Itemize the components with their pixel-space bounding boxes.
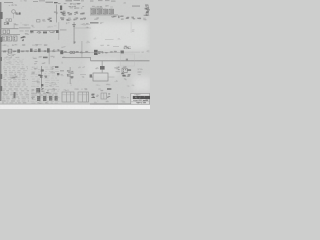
table T6 outline — [78, 92, 89, 102]
label text right col a — [137, 68, 140, 71]
label y62 a — [34, 63, 36, 64]
node cross — [101, 21, 103, 24]
label under K4 a — [97, 84, 100, 87]
label under T2 — [96, 17, 99, 18]
resistor R5 box — [8, 49, 12, 53]
faint wire x131 — [130, 22, 133, 33]
label dash y46 — [113, 45, 119, 48]
terminal dark x30 — [30, 49, 33, 53]
white margin bottom — [0, 105, 150, 110]
relay K1 contact boxes — [6, 19, 8, 22]
wire dash K — [111, 1, 116, 2]
small table x103 — [101, 93, 107, 99]
label row y57 — [11, 56, 13, 57]
contact box row1 a — [3, 30, 6, 33]
label mid — [25, 33, 27, 36]
terminal dash x56 y67 — [55, 66, 58, 68]
label x62 y75 — [61, 74, 64, 77]
label x97 y95 — [96, 95, 99, 96]
label x125 y79 — [124, 77, 126, 80]
capacitor C6 — [139, 18, 141, 19]
motor M2 dark — [60, 50, 63, 54]
label under K4 b — [108, 84, 110, 85]
label text right col b — [138, 71, 141, 74]
wire step join x90 — [89, 57, 92, 61]
component x76 — [76, 51, 79, 52]
label text left of C2 — [42, 20, 44, 21]
switch S1 box — [37, 20, 40, 22]
component cluster x88 y43 — [87, 41, 89, 42]
label text right col c — [139, 73, 141, 76]
transistor Q1 — [68, 71, 70, 74]
dash y72 x118 — [116, 70, 121, 73]
notes text faint upper — [3, 58, 5, 61]
wire y29.8 stub — [60, 29, 67, 32]
component cluster right edge — [146, 13, 147, 16]
label x125 y67 — [125, 65, 127, 68]
component x106 — [106, 52, 108, 53]
wire dash x62 y71 — [60, 69, 64, 72]
wire dash J — [105, 0, 110, 2]
label x88 y27 — [87, 27, 89, 28]
label y84 right — [53, 84, 55, 85]
component x43 y90 — [42, 87, 43, 90]
component y50 b — [13, 51, 14, 52]
component x44 — [44, 49, 46, 52]
light area mid — [86, 58, 118, 78]
dark streak x14 — [14, 92, 16, 98]
dark dash y89 x109 — [107, 88, 111, 90]
stub wires above transformers — [92, 8, 95, 9]
title block divider — [131, 101, 150, 103]
component cluster y12 d — [80, 13, 83, 16]
component right y76 — [45, 75, 47, 78]
terminal dark x48 — [47, 48, 50, 52]
label y57 mid c — [52, 55, 55, 58]
label above table2 b — [85, 88, 87, 91]
component cluster C2 area — [49, 17, 52, 20]
wire vertical drop x102 — [101, 61, 104, 73]
transistor Q2 — [71, 73, 73, 74]
wire top-left horizontal — [4, 1, 13, 4]
left border blob 4 — [0, 74, 2, 79]
label y57 right — [16, 57, 18, 58]
marks x108 y95 — [108, 96, 110, 97]
scribble x44-59 mid — [45, 66, 48, 69]
wire dash C — [46, 2, 54, 3]
component row y18 b — [67, 20, 70, 21]
component dark x123 y75 — [121, 72, 124, 75]
label y62 b — [44, 62, 45, 63]
notes darker cluster — [15, 74, 16, 77]
component x81 — [80, 52, 82, 53]
component x115 — [114, 51, 117, 52]
relay K2 coil pair — [7, 22, 9, 24]
component cluster y47 — [128, 46, 131, 49]
wire dash F — [74, 0, 81, 2]
diode D2 — [127, 17, 129, 18]
components right of array — [23, 36, 26, 37]
label y103 — [39, 103, 41, 104]
bus wire vertical x41 — [40, 66, 43, 88]
component x65 — [65, 52, 67, 53]
left border blob 2 — [0, 37, 2, 42]
bar row B3 — [49, 96, 52, 101]
label x82 y67 faint — [78, 67, 81, 68]
light area right-center — [90, 22, 148, 50]
label x52 y72 — [52, 71, 54, 72]
label left of title block — [124, 97, 126, 98]
component x48 y91 — [46, 92, 49, 93]
label text top edge — [24, 0, 26, 1]
ic U2 box with pins — [122, 68, 127, 72]
component x102 — [101, 52, 103, 53]
light area right mid — [133, 77, 150, 91]
faint mark right — [118, 37, 120, 40]
bus wire y28.6 — [0, 27, 19, 30]
capacitor C5 — [133, 18, 135, 19]
label left of title block b — [121, 100, 124, 101]
faint marks y85 — [128, 86, 129, 87]
component row y6 — [72, 6, 74, 7]
capacitor C7 on bus — [72, 23, 75, 26]
marks left of bars — [32, 96, 35, 99]
wire dash L — [132, 5, 140, 8]
component small right — [113, 15, 114, 18]
bottom border line right dark — [90, 103, 150, 106]
notes text block lower — [3, 88, 6, 89]
bus wire vertical x58.8 — [58, 22, 61, 40]
connector J1 right edge — [145, 7, 147, 10]
component x128 y76 — [128, 74, 131, 75]
left border blob 3 — [0, 57, 2, 61]
diode D1 — [121, 18, 122, 21]
faint y101 b — [107, 101, 109, 102]
big box outline faint — [121, 54, 135, 66]
transformer T2 winding — [97, 9, 101, 14]
transformer T1 winding — [91, 9, 95, 14]
junction dark node — [19, 12, 21, 14]
label sparse a — [31, 25, 33, 26]
title block text row1 — [136, 99, 139, 102]
bar row B1 — [37, 96, 40, 101]
bus wire y8 — [90, 7, 103, 10]
wire vertical x82 — [81, 41, 84, 58]
terminal dash y57 — [43, 57, 48, 59]
component row y18 — [61, 17, 64, 18]
component x38 — [37, 32, 38, 33]
scribble x30-40 mid — [32, 66, 35, 69]
label row y44 c — [39, 43, 42, 46]
label x82 y77 — [83, 77, 85, 78]
component dense y76 — [39, 75, 42, 76]
wire y27.9 branch right — [74, 27, 91, 30]
text row y93 — [31, 93, 34, 94]
paper background — [0, 0, 150, 109]
component cluster dense y12 — [62, 13, 65, 14]
stub wire right — [118, 16, 120, 19]
component x111 — [110, 51, 112, 52]
label y89 x100 — [101, 90, 103, 91]
component x141 faint — [143, 50, 145, 53]
component on bus y70 — [41, 70, 43, 71]
label row y44 a — [14, 44, 17, 47]
component x53 — [52, 50, 53, 51]
label x53 y67 — [52, 68, 54, 69]
label above table1 — [67, 89, 69, 92]
bottom border line — [0, 103, 150, 106]
faint mark diag — [93, 38, 94, 41]
label y84 faint — [70, 83, 72, 84]
dark node y85 — [41, 84, 43, 86]
bar row B4 — [55, 96, 58, 101]
label on bus — [56, 13, 57, 14]
resistor R1 dark bar — [60, 6, 62, 11]
component row y18 d — [81, 17, 84, 20]
stub wires below transformers — [92, 14, 95, 15]
label right of K4 — [116, 80, 117, 81]
label x33 y68 — [35, 68, 38, 69]
junction cluster x31 — [31, 30, 34, 33]
left border blob 1 — [0, 12, 3, 19]
dashed wire y31 — [20, 30, 24, 33]
scribble fill x30-60 lower — [31, 96, 35, 99]
wire vertical x117.5 — [116, 94, 119, 104]
wire dash x83 y75 — [80, 73, 86, 76]
faint marks x133 — [132, 31, 134, 32]
component x99 — [99, 53, 101, 54]
wire dash B — [39, 0, 45, 2]
terminal dark y50 — [17, 49, 20, 52]
junction mark low — [74, 42, 76, 43]
component x147 faint — [148, 51, 150, 54]
wire dash E — [66, 0, 73, 2]
node cluster near M1 — [16, 14, 18, 15]
label y46 mid — [62, 46, 65, 49]
component y50 a — [3, 50, 6, 53]
faint dash y40 — [105, 38, 114, 41]
bus wire y52.3 right — [90, 51, 120, 54]
bus wire y60.7 long — [91, 59, 150, 62]
terminal dark x39 — [38, 49, 41, 53]
component x35 — [34, 51, 36, 52]
wire to right edge — [82, 23, 90, 26]
wire dark dash y23 — [90, 22, 99, 23]
bus wire y30.3 — [30, 29, 59, 32]
bus wire vertical x70 — [69, 67, 72, 84]
wire dash I — [98, 0, 103, 2]
label y82 a — [34, 80, 36, 83]
label text top-left — [14, 4, 16, 5]
bus wire vertical x74 — [73, 22, 76, 44]
label right of bus — [83, 24, 86, 27]
label y57 mid a — [34, 58, 37, 59]
terminal dark x122 — [121, 51, 124, 54]
title block text row2 — [144, 101, 146, 104]
component x86 — [85, 51, 87, 52]
table T5 outline — [62, 92, 74, 102]
label row y44 d — [46, 44, 48, 47]
wire dash D — [58, 2, 61, 5]
mark y62 — [61, 61, 63, 64]
label text x20 y23 — [26, 24, 29, 25]
terminal dash x129 y70 — [128, 69, 132, 71]
bus wire y51 mid — [30, 50, 60, 53]
terminal dark x44 — [43, 32, 47, 34]
white margin bottom right — [118, 105, 150, 109]
label y57 small — [64, 56, 67, 59]
tick on bus x126 — [126, 59, 128, 61]
title block outline — [131, 93, 150, 104]
bus wire y51 — [0, 50, 30, 53]
wire K2 down — [13, 25, 16, 29]
component x50 — [52, 31, 54, 32]
title block top marks — [137, 94, 138, 95]
label right bottom — [145, 19, 147, 20]
left border line — [0, 2, 1, 101]
relay array box a — [3, 36, 7, 41]
label row y3 — [78, 3, 80, 4]
faint y101 a — [97, 100, 98, 103]
label x33 y89 — [32, 90, 34, 91]
bus wire y34.5 — [0, 33, 20, 36]
label row y44 b — [22, 45, 24, 46]
title block dark band — [133, 96, 150, 99]
label right of K2 — [15, 23, 18, 26]
faint marks y61 — [15, 61, 17, 62]
terminal dark x56 — [56, 30, 59, 33]
labels above transformers — [97, 5, 99, 8]
relay array box c — [13, 36, 17, 41]
bus wire y27.9 right — [19, 27, 31, 30]
label left of bus — [66, 23, 68, 24]
meter M1 circle — [12, 10, 16, 14]
contact box row1 b — [7, 30, 10, 33]
component row y18 c — [76, 18, 78, 19]
wire right edge vertical — [147, 5, 150, 15]
bus wire y57.5 left segment — [62, 56, 91, 59]
transistor Q3 — [67, 76, 70, 77]
bar row B2 — [43, 96, 46, 101]
terminal small dark x90 — [90, 74, 92, 77]
component cluster y12 b — [69, 14, 72, 15]
wire M1 down — [12, 13, 15, 18]
label sparse b — [49, 26, 51, 29]
fuse F1 dark blob — [100, 66, 105, 70]
label text x2 y45 — [4, 44, 6, 45]
bus wire y15 — [90, 14, 118, 17]
scribble fill x30-60 upper — [31, 89, 34, 90]
bus wire y52.5 — [60, 51, 90, 54]
wire dash A — [33, 0, 38, 3]
relay box K4 outline — [93, 73, 108, 81]
notes text block rows — [3, 66, 5, 67]
wire y52 faint right — [124, 51, 140, 54]
component x117 y68 — [116, 66, 119, 69]
wire out K4 right — [108, 76, 115, 79]
scan grain overlay — [0, 0, 150, 109]
terminal block dark — [54, 2, 58, 3]
left border blob 5 — [0, 86, 2, 91]
label x53 y89 — [52, 88, 55, 91]
dark cluster x92 y95 — [93, 96, 95, 99]
label y45 faint — [101, 45, 103, 46]
label left of F1 — [96, 67, 98, 68]
wire vertical x49 — [48, 53, 51, 65]
component y50 c — [21, 51, 24, 52]
label row y54 — [11, 54, 13, 57]
component y50 d — [26, 51, 27, 52]
label x33 y73 — [32, 72, 34, 73]
lamp L1 circles — [70, 51, 72, 53]
wire dash H — [90, 1, 94, 2]
label faint top right — [123, 2, 125, 5]
transistor Q4 — [71, 76, 74, 77]
contactor K3 dark box — [94, 50, 98, 55]
bus wire vertical x56 — [55, 5, 58, 23]
component cluster y12 c — [77, 13, 79, 14]
transformer T3 winding — [103, 9, 107, 14]
label above table2 — [74, 89, 76, 90]
component x57 — [58, 50, 59, 51]
wire dash G — [81, 0, 84, 2]
relay array box b — [8, 36, 12, 41]
label y57 mid b — [38, 56, 41, 59]
wire into K4 left — [92, 76, 93, 79]
junction blob dark x38 — [36, 88, 40, 92]
dark node x58 y74 — [57, 73, 59, 75]
transformer T4 winding — [109, 9, 113, 14]
